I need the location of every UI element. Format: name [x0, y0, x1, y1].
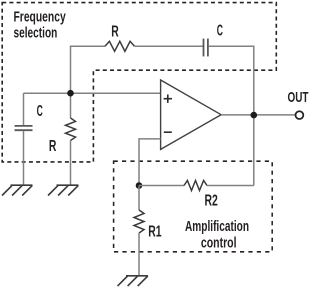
node B junction dot: [136, 182, 143, 189]
svg-text:control: control: [201, 235, 237, 252]
OUT terminal circle: [296, 111, 304, 119]
label R (left): [49, 138, 57, 155]
output node junction dot: [251, 112, 258, 119]
wire resistor R to capacitor C: [135, 45, 204, 47]
amplification control dashed region: [114, 161, 273, 252]
label Amplification control: [185, 218, 249, 252]
svg-text:Amplification: Amplification: [185, 218, 249, 235]
resistor R1 (amplification control): [134, 210, 144, 233]
wire node B down to resistor R1: [138, 186, 140, 211]
node A junction dot: [67, 90, 74, 97]
wire node A to op-amp + input: [24, 92, 161, 94]
capacitor C (top, frequency selection): [204, 39, 208, 57]
svg-text:C: C: [37, 103, 43, 120]
wire op-amp - input to node B: [139, 139, 161, 186]
svg-text:OUT: OUT: [288, 89, 309, 106]
ground (under capacitor C left): [2, 185, 33, 195]
label R (top): [111, 23, 119, 40]
wire capacitor C to right corner down to output node: [208, 46, 253, 185]
capacitor C (left, frequency selection): [15, 126, 33, 130]
wire top corner to resistor R: [70, 45, 105, 47]
ground (under resistor R1): [118, 276, 149, 286]
svg-text:Frequency: Frequency: [14, 9, 67, 26]
resistor R (left, frequency selection): [66, 118, 76, 141]
svg-text:R1: R1: [148, 224, 161, 241]
svg-text:R: R: [111, 23, 119, 40]
label C (left): [37, 103, 43, 120]
resistor R2 (amplification control): [184, 181, 207, 191]
svg-text:R: R: [49, 138, 57, 155]
wire resistor R1 to ground: [138, 233, 140, 275]
frequency selection dashed region: [2, 3, 276, 162]
label OUT: [288, 89, 309, 106]
wire op-amp output to OUT terminal: [221, 114, 296, 116]
ground (under resistor R left): [48, 185, 79, 195]
label Frequency selection: [14, 9, 67, 42]
svg-text:C: C: [217, 23, 223, 40]
wire node A branch down to capacitor C (left): [23, 93, 25, 125]
wire resistor R2 to output vertical: [207, 185, 254, 187]
wire resistor R (left) to ground: [70, 141, 72, 186]
wire node A down to resistor R (left): [70, 93, 72, 118]
wire capacitor C (left) to ground: [23, 131, 25, 185]
wire node A up to top feedback path: [70, 46, 72, 93]
label R1: [148, 224, 161, 241]
wire node B to resistor R2: [139, 185, 184, 187]
label C (top): [217, 23, 223, 40]
resistor R (top, frequency selection): [105, 41, 135, 51]
op-amp U1: [161, 80, 222, 149]
svg-text:R2: R2: [205, 193, 218, 210]
label R2: [205, 193, 218, 210]
svg-text:selection: selection: [14, 25, 58, 42]
